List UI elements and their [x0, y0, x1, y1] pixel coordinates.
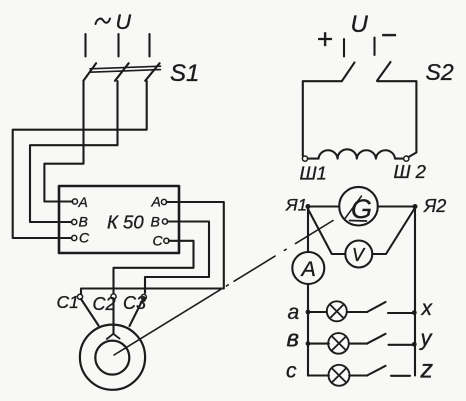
- DC positive pole stub: [343, 39, 345, 57]
- svg-text:с: с: [286, 360, 297, 383]
- mechanical coupling dash-dot line: [114, 221, 333, 356]
- wire lamp с to switch: [349, 374, 367, 376]
- wire S2 right to winding terminal: [377, 81, 416, 157]
- wire lamp в to switch: [349, 343, 367, 345]
- wire G to Я2: [378, 205, 415, 207]
- svg-text:z: z: [420, 356, 434, 384]
- K50 left terminal C: [72, 235, 77, 240]
- K50 left terminal A: [72, 199, 77, 204]
- ammeter A: [292, 252, 324, 284]
- svg-text:S2: S2: [426, 59, 454, 85]
- lamp a: [327, 301, 347, 321]
- node x: [412, 310, 417, 315]
- field winding terminal Ш2: [404, 156, 409, 161]
- wire C2 to motor star point: [112, 299, 114, 334]
- svg-text:S1: S1: [170, 60, 199, 87]
- phase wire L1 stub: [84, 34, 86, 57]
- svg-text:C: C: [79, 230, 90, 246]
- switch blade с-z: [367, 366, 386, 376]
- right bus wire from Я2: [414, 209, 416, 376]
- svg-text:C3: C3: [123, 293, 146, 313]
- terminal C2: [111, 294, 116, 299]
- wire K50 C-right to terminal C2: [114, 241, 194, 293]
- wire phase C to K50 terminal C: [13, 81, 147, 238]
- K50 right terminal A: [161, 199, 166, 204]
- switch S1 blade 2: [115, 63, 129, 81]
- wire Я1 to G: [308, 205, 339, 207]
- svg-text:x: x: [421, 297, 434, 320]
- switch blade в-у: [367, 334, 386, 344]
- svg-text:C1: C1: [57, 292, 79, 312]
- switch S1 blade 3: [145, 63, 159, 81]
- K50 right terminal B: [162, 219, 167, 224]
- phase wire L3 stub: [148, 34, 150, 57]
- wire to node у: [389, 344, 414, 346]
- K50 measuring set box: [59, 186, 179, 253]
- wire C1 to motor: [81, 299, 99, 326]
- lamp с: [329, 365, 350, 386]
- K50 left terminal B: [72, 219, 77, 224]
- voltmeter V: [345, 241, 372, 268]
- armature terminal Я2: [413, 204, 418, 209]
- wire Я1 down to A: [307, 209, 309, 252]
- svg-text:V: V: [352, 245, 366, 265]
- wire phase A to K50 terminal A: [44, 81, 83, 202]
- wire phase B to K50 terminal B: [30, 81, 118, 222]
- svg-text:+: +: [317, 24, 333, 55]
- svg-text:C2: C2: [93, 294, 116, 314]
- motor stator circle: [80, 325, 145, 390]
- switch blade a-x: [367, 302, 386, 312]
- phase wire L2 stub: [117, 34, 119, 57]
- svg-text:Ш 2: Ш 2: [394, 161, 427, 182]
- wire lamp a to switch: [347, 311, 367, 313]
- switch S2 blade right: [377, 62, 390, 81]
- svg-text:у: у: [419, 326, 434, 351]
- wire a to lamp: [308, 311, 327, 313]
- field winding terminal Ш1: [302, 156, 307, 161]
- K50 right terminal C: [164, 238, 169, 243]
- svg-text:A: A: [300, 257, 316, 281]
- wire S2 left to winding terminal: [303, 81, 342, 156]
- svg-text:C: C: [153, 233, 164, 249]
- wire C3 to motor: [130, 299, 144, 327]
- svg-text:B: B: [151, 214, 160, 230]
- svg-text:U: U: [116, 10, 132, 34]
- svg-text:B: B: [79, 214, 88, 230]
- wire to node x: [388, 312, 413, 314]
- svg-text:а: а: [288, 301, 300, 324]
- field winding coil: [308, 149, 404, 158]
- motor rotor circle: [95, 341, 129, 375]
- switch S1 blade 1: [83, 63, 96, 81]
- svg-text:Я1: Я1: [285, 196, 307, 215]
- wire to node z: [391, 375, 410, 377]
- svg-text:Я2: Я2: [423, 196, 446, 216]
- svg-text:−: −: [381, 20, 397, 51]
- svg-text:A: A: [151, 194, 161, 210]
- node у: [412, 342, 417, 347]
- armature terminal Я1: [306, 204, 311, 209]
- terminal C3: [141, 294, 146, 299]
- switch S1 gang bar: [90, 66, 161, 72]
- wire K50 B-right to terminal C3: [145, 222, 209, 294]
- node в: [306, 341, 311, 346]
- svg-text:в: в: [287, 326, 300, 353]
- wire V to Я2: [372, 209, 414, 255]
- svg-text:U: U: [351, 11, 369, 38]
- svg-text:Ш1: Ш1: [300, 163, 327, 184]
- wire K50 A-right to terminal C1: [81, 202, 224, 294]
- svg-text:G: G: [351, 194, 372, 224]
- svg-text:A: A: [78, 194, 88, 210]
- label ~U (AC supply): [96, 19, 111, 25]
- terminal C1: [77, 294, 82, 299]
- motor star point: [107, 334, 120, 339]
- left bus wire below A: [307, 284, 309, 376]
- DC negative pole stub: [373, 38, 375, 56]
- wire в to lamp: [308, 343, 329, 345]
- wire с to lamp: [308, 374, 329, 376]
- node a: [306, 310, 311, 315]
- switch S2 blade left: [342, 63, 355, 82]
- generator G: [339, 187, 378, 226]
- lamp в: [328, 333, 349, 354]
- wire Я1 to V: [309, 210, 346, 254]
- svg-text:К 50: К 50: [107, 212, 144, 233]
